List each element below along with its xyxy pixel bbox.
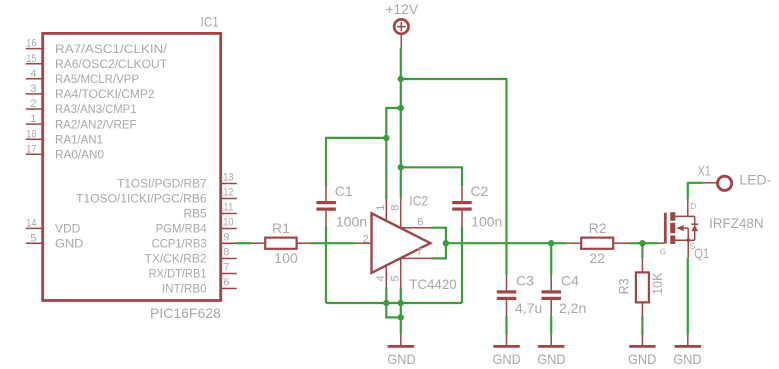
svg-text:RA0/AN0: RA0/AN0 <box>55 150 104 162</box>
svg-text:2: 2 <box>363 233 369 245</box>
svg-text:15: 15 <box>26 53 36 65</box>
IC2 pin 4 <box>385 265 387 287</box>
svg-text:C3: C3 <box>516 273 534 289</box>
IC1 right pin numbers <box>223 172 233 289</box>
supply +12V symbol <box>394 19 408 48</box>
svg-text:2,2n: 2,2n <box>559 300 586 316</box>
svg-text:RA3/AN3/CMP1: RA3/AN3/CMP1 <box>55 104 137 116</box>
wire bottom bus C1 to C2 <box>326 302 462 304</box>
junction C1 branch <box>383 135 389 141</box>
svg-text:GND: GND <box>493 351 521 367</box>
capacitor C2 <box>452 186 472 227</box>
svg-text:7: 7 <box>223 262 229 274</box>
svg-text:4: 4 <box>30 68 36 80</box>
svg-text:11: 11 <box>223 202 233 214</box>
svg-text:R2: R2 <box>589 220 607 236</box>
svg-text:10K: 10K <box>649 272 665 295</box>
svg-text:4,7u: 4,7u <box>515 300 542 316</box>
svg-text:3: 3 <box>30 83 36 95</box>
junction pin1 branch <box>398 105 404 111</box>
svg-text:13: 13 <box>223 172 233 184</box>
wire R3 top <box>641 243 643 258</box>
wire C3 bottom to GND <box>505 316 507 335</box>
svg-text:VDD: VDD <box>55 224 80 236</box>
wire IC2 pins 6/7 output bracket <box>431 228 446 259</box>
svg-text:100n: 100n <box>336 213 367 229</box>
IC1 right pin name labels <box>76 179 207 296</box>
wire C4 bottom to GND <box>550 316 552 335</box>
svg-text:GND: GND <box>673 351 701 367</box>
svg-text:4: 4 <box>375 275 387 281</box>
svg-text:X1: X1 <box>698 162 711 178</box>
IC1 left pin numbers <box>26 38 36 245</box>
junction gnd jog <box>398 314 404 320</box>
svg-text:D: D <box>690 202 696 211</box>
svg-text:8: 8 <box>223 247 229 259</box>
ground symbol under Q1 <box>675 335 701 347</box>
svg-text:RB5: RB5 <box>184 209 207 221</box>
svg-text:5: 5 <box>390 275 402 281</box>
ground symbol under C3 <box>493 335 519 347</box>
terminal X1 <box>703 176 732 190</box>
svg-text:RA2/AN2/VREF: RA2/AN2/VREF <box>55 119 137 131</box>
svg-text:RX/DT/RB1: RX/DT/RB1 <box>149 269 207 281</box>
ground symbol under R3 <box>629 335 655 347</box>
wire +12V branch to IC2 pin1 <box>386 108 401 199</box>
svg-text:C2: C2 <box>471 183 489 199</box>
IC2 pin 7 stub <box>400 257 431 259</box>
IC2 pin 8 <box>400 199 402 229</box>
svg-text:INT/RB0: INT/RB0 <box>162 284 207 296</box>
svg-text:T1OSO/1ICKI/PGC/RB6: T1OSO/1ICKI/PGC/RB6 <box>76 194 207 206</box>
capacitor C4 <box>542 275 562 316</box>
svg-text:R3: R3 <box>615 278 631 294</box>
op-amp style driver IC2 triangle <box>372 213 431 273</box>
svg-text:RA1/AN1: RA1/AN1 <box>55 134 103 146</box>
svg-text:22: 22 <box>589 250 605 266</box>
junction R3/gate <box>639 240 645 246</box>
svg-text:GND: GND <box>387 351 415 367</box>
wire IC2 pin5 drop <box>400 288 402 304</box>
wire +12V rail vertical <box>400 48 402 199</box>
svg-text:17: 17 <box>26 143 36 155</box>
svg-text:10: 10 <box>223 217 233 229</box>
svg-text:7: 7 <box>416 247 422 259</box>
svg-text:GND: GND <box>55 239 83 251</box>
wire IC2 pin4 drop <box>385 288 387 304</box>
wire branch to C2 top <box>401 167 462 186</box>
svg-text:T1OSI/PGD/RB7: T1OSI/PGD/RB7 <box>117 179 207 191</box>
svg-text:R1: R1 <box>272 220 290 236</box>
svg-text:16: 16 <box>26 38 36 50</box>
svg-text:TX/CK/RB2: TX/CK/RB2 <box>145 254 207 266</box>
svg-text:IC1: IC1 <box>201 13 219 29</box>
wire C4 top <box>550 243 552 275</box>
svg-text:RA4/TOCKI/CMP2: RA4/TOCKI/CMP2 <box>55 89 155 101</box>
svg-text:GND: GND <box>628 351 656 367</box>
wire IC1 pin9 to R1 <box>236 242 252 244</box>
resistor R1 <box>251 238 311 249</box>
wire +12V branch right to C3 column <box>401 79 507 275</box>
svg-text:C4: C4 <box>561 273 579 289</box>
IC2 pin 5 <box>400 258 402 287</box>
wire C1 bottom down <box>325 226 327 303</box>
junction +12V/top branch <box>398 76 404 82</box>
svg-text:18: 18 <box>26 128 36 140</box>
wire R3 bottom to GND <box>641 316 643 335</box>
svg-text:5: 5 <box>30 232 36 244</box>
capacitor C3 <box>497 275 517 316</box>
svg-text:100n: 100n <box>471 213 502 229</box>
IC1 left pin stubs 16,15,4,3,2,1,18,17,14,5 <box>26 49 43 244</box>
wire R1 to IC2 pin2 <box>311 242 355 244</box>
IC2 pin 2 <box>355 242 370 244</box>
svg-text:+12V: +12V <box>385 1 419 17</box>
svg-text:PIC16F628: PIC16F628 <box>150 305 221 321</box>
IC1 left pin name labels <box>55 44 168 251</box>
resistor R2 <box>566 238 628 249</box>
svg-text:14: 14 <box>26 218 36 230</box>
junction C4 top <box>548 240 554 246</box>
IC IC1 body <box>43 33 221 300</box>
IC2 pin 1 <box>385 199 387 221</box>
IC2 pin 6 stub <box>400 227 431 229</box>
svg-text:RA7/ASC1/CLKIN/: RA7/ASC1/CLKIN/ <box>55 44 168 56</box>
wire IC2 output to R2 <box>446 242 567 244</box>
svg-text:6: 6 <box>417 217 423 229</box>
junction pin5 bottom <box>398 300 404 306</box>
svg-text:C1: C1 <box>335 183 353 199</box>
ground symbol under C4 <box>538 335 564 347</box>
svg-text:CCP1/RB3: CCP1/RB3 <box>152 239 207 251</box>
svg-text:2: 2 <box>30 98 36 110</box>
svg-text:TC4420: TC4420 <box>409 276 457 292</box>
wire R2 to Q1 gate <box>628 242 658 244</box>
resistor R3 <box>636 258 649 316</box>
junction pin4 bottom <box>383 300 389 306</box>
svg-text:IRFZ48N: IRFZ48N <box>709 215 764 231</box>
junction C2 branch <box>398 164 404 170</box>
svg-text:LED-: LED- <box>739 172 771 188</box>
wire branch to C1 top <box>326 138 386 186</box>
ground symbol under IC2 <box>388 335 414 347</box>
junction IC2 output <box>443 240 449 246</box>
svg-text:G: G <box>660 248 666 257</box>
IC1 right pin stubs 13,12,11,10,9,8,7,6 <box>221 184 237 289</box>
svg-text:1: 1 <box>30 113 36 125</box>
svg-text:12: 12 <box>223 187 233 199</box>
wire C2 bottom down <box>461 227 463 303</box>
wire to GND under IC2 <box>400 303 402 335</box>
svg-text:1: 1 <box>375 205 387 211</box>
svg-text:IC2: IC2 <box>409 192 428 208</box>
wire Q1 source to GND <box>687 258 689 335</box>
svg-text:PGM/RB4: PGM/RB4 <box>156 224 208 236</box>
wire Q1 drain to X1 <box>688 183 703 199</box>
svg-text:100: 100 <box>274 250 298 266</box>
svg-text:RA6/OSC2/CLKOUT: RA6/OSC2/CLKOUT <box>55 59 167 71</box>
svg-text:8: 8 <box>390 205 402 211</box>
svg-text:6: 6 <box>223 277 229 289</box>
wire gnd jog from pin4 <box>386 303 401 317</box>
svg-text:9: 9 <box>223 231 229 243</box>
capacitor C1 <box>316 186 336 226</box>
transistor Q1 IRFZ48N <box>658 199 698 258</box>
svg-text:Q1: Q1 <box>694 245 709 261</box>
svg-text:GND: GND <box>537 351 565 367</box>
svg-text:RA5/MCLR/VPP: RA5/MCLR/VPP <box>55 74 139 86</box>
